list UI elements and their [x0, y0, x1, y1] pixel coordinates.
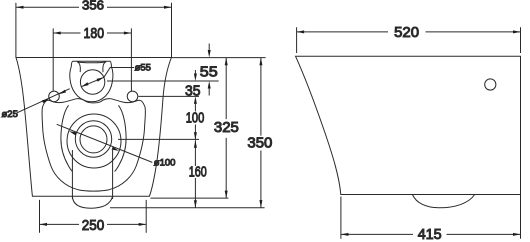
dim 180 arrows — [53, 32, 131, 35]
dim 55 (x209) — [208, 44, 210, 96]
ref line drain center (y139) — [118, 138, 199, 140]
dim 325 (x226.2) — [225, 58, 227, 198]
svg-text:415: 415 — [418, 227, 442, 242]
dim 250 arrows — [40, 223, 147, 226]
dim 160 (x195.4) — [194, 140, 196, 208]
outlet spigot bottom — [72, 196, 112, 208]
svg-text:ø100: ø100 — [154, 158, 176, 169]
ref line holes center (y96) — [139, 95, 200, 97]
dim 250 extension lines — [40, 200, 147, 233]
dim 520 arrows — [297, 30, 521, 33]
svg-text:160: 160 — [189, 165, 207, 181]
dim 180 extension lines — [53, 28, 131, 91]
svg-text:55: 55 — [200, 64, 218, 81]
ref line spigot bottom (y208) — [110, 207, 265, 209]
drain ring inner — [80, 126, 107, 153]
cup top corner notches — [77, 62, 80, 72]
dim 35 (x195.4) outside arrows — [194, 70, 196, 74]
top edge reference extension — [171, 57, 265, 59]
ref line body bottom (y198) — [151, 197, 229, 199]
ref line inlet center (y81) — [107, 80, 219, 82]
dim 520 extension lines — [297, 27, 521, 53]
cup lip inner arc — [77, 62, 106, 63]
seat fixing hole — [485, 79, 496, 90]
trapway left line — [71, 150, 73, 199]
bowl outer contour — [42, 99, 145, 192]
svg-text:ø25: ø25 — [2, 109, 18, 120]
dim 100 (x195.4) — [194, 104, 196, 140]
bowl circle — [67, 114, 121, 168]
inner wall left — [61, 105, 73, 171]
svg-text:180: 180 — [84, 26, 105, 42]
dim 356 line — [16, 6, 172, 8]
svg-text:35: 35 — [185, 83, 201, 99]
right mounting hole — [127, 91, 138, 102]
svg-text:325: 325 — [214, 120, 239, 136]
dim 350 (x260.9) — [260, 58, 262, 208]
svg-text:100: 100 — [186, 111, 205, 127]
dim 520 line — [297, 31, 521, 33]
inlet circle (Ø55) — [80, 70, 104, 94]
side body outline — [296, 56, 521, 194]
inlet boss (cup) — [70, 61, 113, 102]
trapway right line — [112, 150, 114, 199]
svg-text:250: 250 — [82, 217, 105, 234]
leader Ø25 — [17, 89, 70, 113]
dim 415 extension lines — [341, 195, 521, 239]
leader Ø55 diameter arrows — [81, 68, 134, 87]
svg-text:356: 356 — [82, 0, 104, 12]
dim 180 line — [53, 32, 131, 34]
inner wall right — [115, 105, 127, 171]
dim 415 arrows — [341, 233, 521, 236]
body outline — [16, 58, 171, 197]
outlet bump — [412, 195, 474, 208]
drain ring outer — [75, 121, 111, 157]
dim 356 extension lines — [16, 3, 172, 58]
svg-text:350: 350 — [247, 136, 272, 152]
leader Ø100 diameter line — [57, 124, 153, 162]
dim 356 arrows — [16, 6, 172, 9]
svg-text:ø55: ø55 — [135, 62, 151, 73]
left mounting hole (Ø25) — [49, 91, 60, 102]
dim 415 line — [341, 233, 521, 235]
dim 250 line — [40, 223, 147, 225]
svg-text:520: 520 — [394, 25, 419, 41]
